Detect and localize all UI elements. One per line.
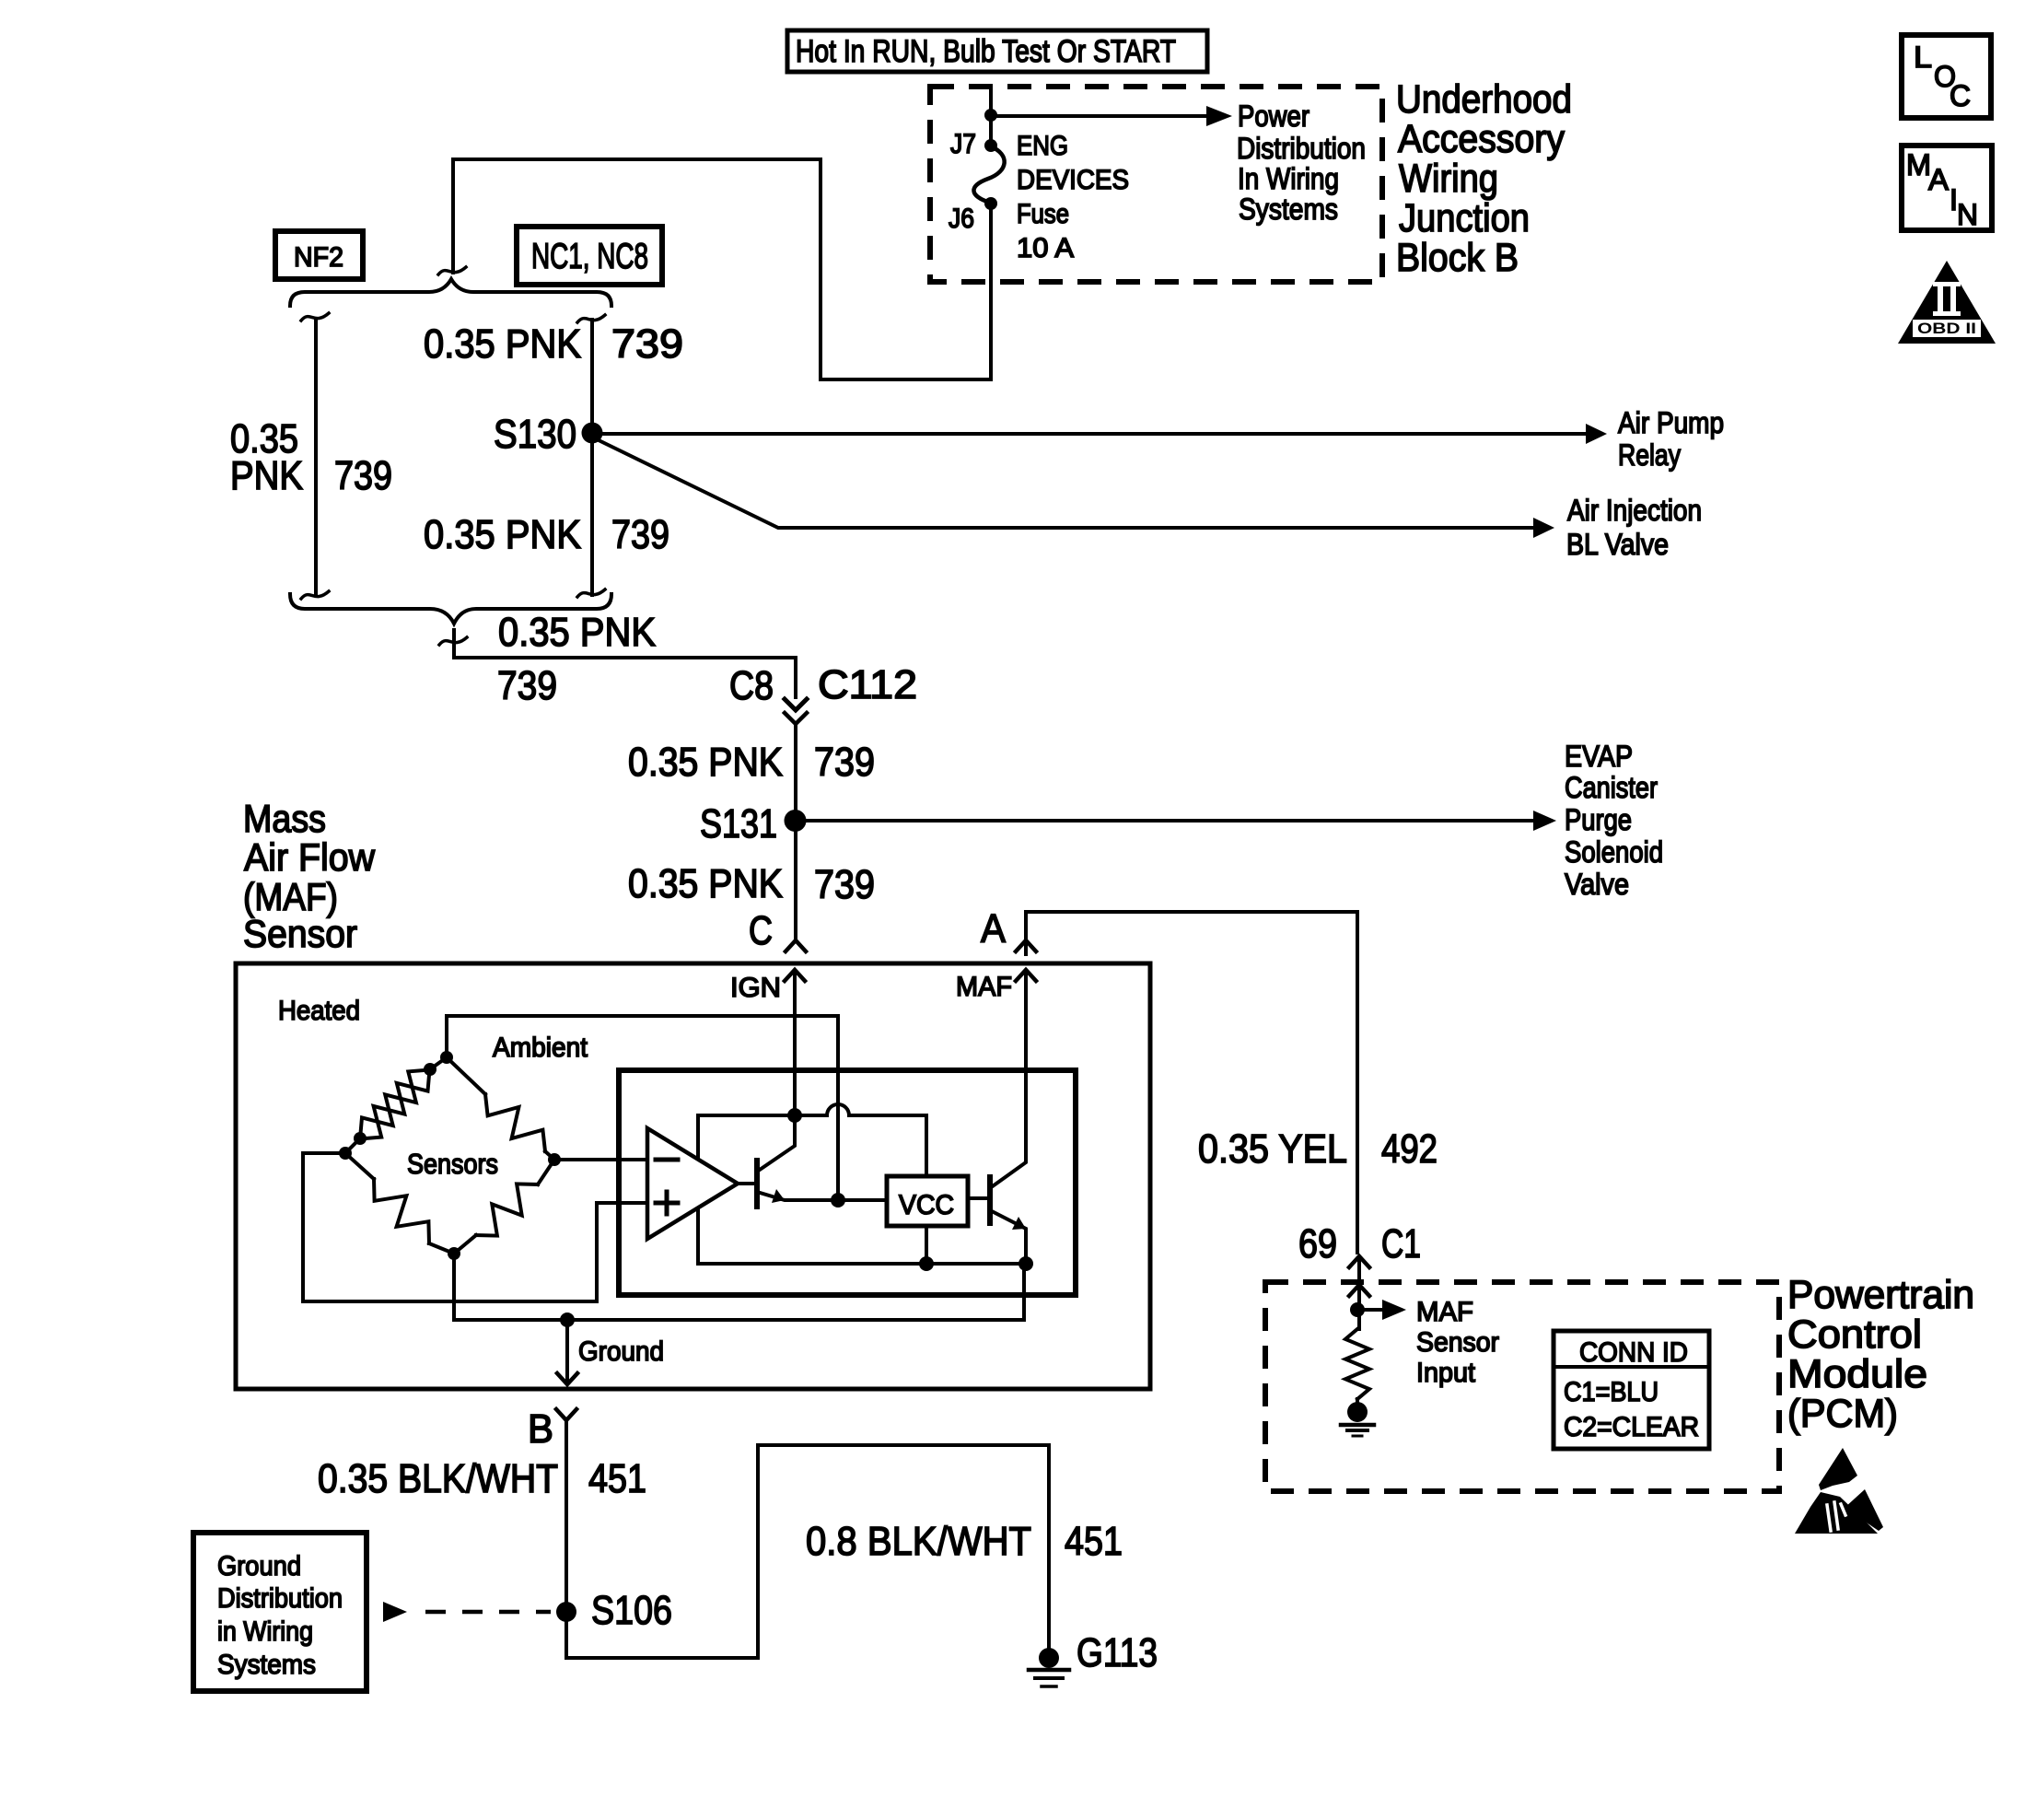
svg-text:Heated: Heated (278, 996, 360, 1026)
wire S131 to EVAP solenoid (796, 819, 1533, 822)
svg-text:DEVICES: DEVICES (1017, 165, 1129, 195)
svg-text:Module: Module (1787, 1352, 1927, 1396)
bridge node left (339, 1147, 352, 1160)
wire S106 to G113 (566, 1445, 1049, 1658)
connector pin C chevron (786, 940, 806, 951)
MAIN symbol box (1902, 146, 1992, 230)
svg-text:C8: C8 (729, 663, 774, 708)
feedback rail left drop (696, 1115, 700, 1264)
svg-text:Junction: Junction (1399, 196, 1530, 240)
resistor heated 1 (360, 1070, 430, 1139)
MAF sensor box (236, 963, 1150, 1389)
svg-text:Distribution: Distribution (1237, 132, 1366, 165)
NF2 label box (275, 231, 363, 279)
CONN ID table box (1554, 1331, 1709, 1449)
svg-text:10 A: 10 A (1017, 233, 1074, 263)
svg-text:MAF: MAF (956, 972, 1012, 1002)
svg-text:Sensor: Sensor (1416, 1327, 1499, 1358)
svg-text:Mass: Mass (243, 797, 326, 840)
junction block B dashed box (930, 87, 1382, 282)
resistor heated 2 (360, 1070, 430, 1139)
wire S130 to Air Injection BL Valve (597, 439, 1533, 528)
svg-text:Air Injection: Air Injection (1567, 494, 1702, 527)
junction dot heated top (424, 1063, 436, 1076)
svg-text:0.35 PNK: 0.35 PNK (498, 610, 656, 655)
connector C112 chevron (785, 713, 807, 724)
svg-text:0.8 BLK/WHT: 0.8 BLK/WHT (806, 1519, 1031, 1564)
svg-text:Block B: Block B (1396, 236, 1519, 280)
stub heated bottom to left node (345, 1138, 360, 1153)
svg-text:in Wiring: in Wiring (217, 1616, 313, 1647)
svg-text:Air Pump: Air Pump (1618, 406, 1724, 439)
svg-text:(PCM): (PCM) (1787, 1392, 1898, 1436)
bottom rail (698, 1262, 1026, 1266)
ground PCM internal (1347, 1402, 1368, 1422)
svg-text:Solenoid: Solenoid (1565, 835, 1663, 869)
svg-text:Control: Control (1787, 1312, 1922, 1357)
svg-text:Systems: Systems (217, 1650, 316, 1680)
svg-text:451: 451 (588, 1456, 646, 1501)
arrowhead power distribution (1206, 106, 1232, 126)
wire bridge right node to opamp minus input (554, 1158, 647, 1161)
svg-text:Ground: Ground (217, 1551, 301, 1581)
svg-text:Ground: Ground (578, 1336, 664, 1367)
svg-text:Valve: Valve (1565, 868, 1629, 901)
wire C112 to MAF pin C (794, 726, 797, 938)
node J7 (984, 139, 997, 152)
splice S106 node (556, 1602, 576, 1622)
break symbol NC wire top (577, 315, 605, 322)
svg-text:Hot In RUN, Bulb Test Or START: Hot In RUN, Bulb Test Or START (796, 34, 1176, 69)
node Q1 emitter / ambient drop (831, 1193, 845, 1207)
connector pin A chevron (1016, 940, 1036, 951)
node J6 (984, 197, 997, 210)
svg-text:0.35 PNK: 0.35 PNK (628, 740, 783, 785)
connector 69 C1 chevron (1349, 1256, 1369, 1267)
svg-text:EVAP: EVAP (1565, 740, 1633, 773)
node VCC bottom (919, 1256, 934, 1271)
svg-text:ENG: ENG (1017, 131, 1068, 161)
wire MAF sensor input arrow (1357, 1308, 1381, 1312)
node power branch (984, 109, 997, 122)
svg-text:S130: S130 (494, 412, 576, 457)
bridge top node wire to ambient rail (447, 1016, 838, 1198)
bridge node right (548, 1153, 561, 1166)
svg-text:C112: C112 (818, 662, 917, 707)
svg-text:0.35 PNK: 0.35 PNK (424, 321, 581, 367)
wire option NC1,NC8 (590, 320, 594, 595)
svg-text:Relay: Relay (1618, 438, 1681, 472)
svg-text:0.35 YEL: 0.35 YEL (1198, 1126, 1347, 1172)
svg-text:N: N (1957, 198, 1978, 231)
NC1,NC8 label box (517, 227, 662, 285)
arrowhead MAF sensor input (1382, 1300, 1406, 1320)
arrowhead ground distribution (383, 1602, 407, 1622)
break symbol NF2 wire bottom (301, 591, 329, 599)
junction dot heated bottom (354, 1132, 367, 1145)
svg-text:739: 739 (334, 453, 392, 498)
svg-text:739: 739 (814, 740, 875, 785)
svg-text:Power: Power (1238, 99, 1309, 133)
amplifier module inner box (619, 1070, 1076, 1295)
OBD II symbol (1898, 261, 1996, 344)
svg-text:IGN: IGN (730, 973, 781, 1003)
svg-text:A: A (981, 906, 1007, 951)
svg-text:0.35 PNK: 0.35 PNK (424, 512, 581, 557)
svg-text:C1: C1 (1381, 1221, 1421, 1266)
svg-text:739: 739 (611, 321, 683, 367)
wire pin B to S106 (565, 1423, 568, 1603)
break symbol NF2 wire top (301, 313, 329, 321)
svg-text:VCC: VCC (899, 1190, 954, 1220)
resistor lower left (345, 1153, 374, 1179)
feedback rail with hop (698, 1104, 926, 1115)
wire power distribution branch (991, 114, 1206, 118)
svg-text:Purge: Purge (1565, 803, 1632, 836)
resistor PCM input (1345, 1329, 1369, 1399)
ground G113 (1039, 1648, 1059, 1668)
connector C112 arrowhead (785, 699, 807, 710)
wire brace to C112 (454, 630, 796, 697)
svg-text:M: M (1906, 148, 1931, 181)
svg-text:739: 739 (611, 512, 669, 557)
svg-text:J7: J7 (950, 129, 976, 159)
svg-text:0.35 PNK: 0.35 PNK (628, 861, 783, 906)
ESD sensitive symbol (1795, 1448, 1883, 1534)
svg-text:J6: J6 (949, 204, 974, 234)
svg-text:BL Valve: BL Valve (1566, 528, 1669, 561)
wire MAF pin A to PCM (1026, 912, 1357, 1253)
arrowhead EVAP (1533, 811, 1556, 831)
svg-text:Distribution: Distribution (217, 1583, 343, 1614)
wire S130 to Air Pump Relay (592, 432, 1586, 436)
wire VCC bottom (925, 1226, 928, 1264)
VCC box (887, 1176, 968, 1226)
svg-text:Wiring: Wiring (1399, 157, 1498, 201)
node MAF sensor input (1350, 1302, 1365, 1317)
stub top node to heated 2 (430, 1057, 447, 1069)
svg-text:451: 451 (1065, 1519, 1123, 1564)
svg-text:C1=BLU: C1=BLU (1564, 1377, 1659, 1407)
svg-text:NC1, NC8: NC1, NC8 (531, 237, 648, 276)
svg-text:Sensors: Sensors (407, 1148, 498, 1180)
svg-text:Input: Input (1416, 1358, 1476, 1388)
brace top NF2/NC span (290, 279, 611, 306)
svg-text:739: 739 (814, 862, 875, 907)
svg-text:CONN ID: CONN ID (1579, 1337, 1688, 1368)
arrowhead into PCM (1349, 1285, 1369, 1296)
svg-text:739: 739 (497, 663, 557, 708)
ground distribution box (193, 1533, 367, 1691)
splice S130 node (582, 423, 603, 444)
node Q2 emitter bottom (1018, 1256, 1033, 1271)
dashed wire ground distribution (425, 1610, 551, 1615)
break symbol below brace (439, 637, 467, 645)
op-amp U1 (647, 1128, 738, 1239)
wire bridge bottom node to emitter rail (454, 1254, 1024, 1320)
wire C1 into PCM (1357, 1258, 1361, 1282)
connector pin B chevron (556, 1409, 576, 1420)
break symbol NC wire bottom (577, 589, 605, 597)
MAF pin arrow into sensor / Q2 collector (1016, 970, 1036, 981)
transistor Q1 (738, 1182, 757, 1185)
wire J6 to options brace (453, 159, 991, 379)
svg-text:A: A (1928, 163, 1950, 196)
svg-text:Ambient: Ambient (493, 1032, 588, 1063)
brace bottom NF2/NC span (290, 594, 611, 624)
svg-text:NF2: NF2 (294, 242, 343, 273)
svg-text:L: L (1914, 41, 1932, 74)
svg-text:In Wiring: In Wiring (1238, 162, 1339, 195)
feedback rail right drop to VCC (925, 1115, 928, 1176)
transistor Q2 (968, 1196, 990, 1200)
svg-text:S106: S106 (591, 1588, 672, 1633)
fuse ENG DEVICES 10A (973, 146, 1004, 203)
wire fuse feed (989, 88, 993, 145)
LOC symbol box (1902, 35, 1991, 118)
svg-text:492: 492 (1381, 1126, 1438, 1172)
splice S131 node (785, 810, 807, 832)
svg-text:69: 69 (1298, 1221, 1337, 1266)
label box Hot In RUN, Bulb Test Or START (787, 30, 1207, 72)
svg-text:Canister: Canister (1565, 771, 1658, 804)
svg-text:Fuse: Fuse (1017, 199, 1069, 229)
svg-text:B: B (528, 1406, 553, 1452)
svg-text:C2=CLEAR: C2=CLEAR (1564, 1412, 1699, 1442)
svg-text:C: C (1950, 79, 1971, 112)
resistor lower right (538, 1160, 554, 1184)
wire bridge left node to opamp plus input (303, 1153, 647, 1301)
svg-text:Accessory: Accessory (1398, 117, 1565, 161)
svg-text:OBD II: OBD II (1917, 320, 1976, 337)
svg-text:0.35 BLK/WHT: 0.35 BLK/WHT (318, 1456, 558, 1501)
wire option NF2 (314, 320, 318, 595)
svg-text:Underhood: Underhood (1396, 77, 1572, 122)
break symbol above brace (438, 267, 466, 274)
svg-text:G113: G113 (1077, 1630, 1158, 1675)
svg-text:Systems: Systems (1239, 192, 1338, 226)
node IGN feedback (787, 1108, 802, 1123)
node ground branch (560, 1312, 575, 1327)
ground arrow inside sensor (565, 1320, 569, 1381)
arrowhead Air Injection BL Valve (1533, 518, 1554, 538)
bridge node top (440, 1051, 453, 1064)
PCM dashed box (1265, 1282, 1779, 1491)
svg-text:Air Flow: Air Flow (244, 835, 376, 879)
svg-text:Powertrain: Powertrain (1787, 1273, 1974, 1317)
svg-text:S131: S131 (700, 801, 777, 846)
IGN pin arrow into sensor (785, 970, 805, 981)
resistor ambient (upper right) (447, 1057, 485, 1094)
svg-text:C: C (749, 908, 773, 953)
svg-text:Sensor: Sensor (243, 912, 357, 955)
bridge node bottom (448, 1247, 460, 1260)
svg-text:MAF: MAF (1416, 1297, 1473, 1327)
svg-text:PNK: PNK (230, 453, 303, 498)
arrowhead Air Pump Relay (1586, 424, 1607, 444)
